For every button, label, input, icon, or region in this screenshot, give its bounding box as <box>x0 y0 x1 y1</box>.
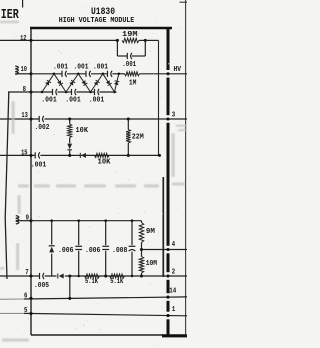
svg-text:.001: .001 <box>89 96 105 104</box>
svg-text:13: 13 <box>21 112 27 120</box>
svg-text:.006: .006 <box>85 247 101 255</box>
svg-text:9M: 9M <box>146 228 155 236</box>
svg-text:.001: .001 <box>93 64 108 72</box>
svg-text:10K: 10K <box>76 127 89 135</box>
svg-text:10M: 10M <box>146 260 158 268</box>
svg-text:7: 7 <box>25 269 28 277</box>
svg-text:15: 15 <box>21 150 27 158</box>
svg-text:8: 8 <box>23 86 26 94</box>
svg-text:1: 1 <box>172 306 176 314</box>
svg-text:19M: 19M <box>122 31 138 39</box>
svg-text:.001: .001 <box>74 64 89 72</box>
svg-text:6: 6 <box>24 293 27 301</box>
svg-text:2: 2 <box>172 268 175 276</box>
svg-text:4: 4 <box>172 241 176 249</box>
svg-text:1M: 1M <box>129 80 137 88</box>
svg-text:.008: .008 <box>112 247 128 255</box>
svg-text:9: 9 <box>26 214 29 222</box>
svg-text:.001: .001 <box>41 96 57 104</box>
svg-text:.001: .001 <box>65 96 81 104</box>
svg-text:.001: .001 <box>31 162 47 170</box>
svg-text:HV: HV <box>174 66 182 74</box>
svg-text:.002: .002 <box>35 124 50 132</box>
svg-text:12: 12 <box>20 35 26 43</box>
svg-text:5.1K: 5.1K <box>110 278 123 286</box>
svg-text:10K: 10K <box>98 159 111 167</box>
svg-text:22M: 22M <box>132 134 144 142</box>
svg-text:3: 3 <box>172 111 175 119</box>
svg-text:5.1K: 5.1K <box>85 278 98 286</box>
svg-text:10: 10 <box>21 66 27 74</box>
svg-text:.005: .005 <box>34 282 49 290</box>
svg-text:.001: .001 <box>53 64 68 72</box>
svg-text:5: 5 <box>24 307 27 315</box>
svg-text:14: 14 <box>169 288 177 296</box>
svg-text:.001: .001 <box>122 61 136 69</box>
svg-text:.006: .006 <box>58 247 74 255</box>
svg-text:HIGH VOLTAGE MODULE: HIGH VOLTAGE MODULE <box>59 17 135 25</box>
